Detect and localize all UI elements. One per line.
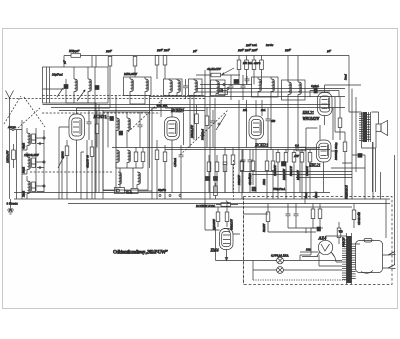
- capacitor Cright filled: [358, 154, 362, 158]
- resistor Rpow3: [318, 204, 322, 229]
- svg-text:20kΩ1W: 20kΩ1W: [238, 175, 241, 185]
- resistor R6 vertical drop: [237, 56, 241, 85]
- wire verticals midband: [190, 95, 194, 148]
- svg-text:µF: µF: [63, 60, 67, 64]
- box IF can6: [282, 80, 306, 100]
- resistor Rpow2: [311, 204, 315, 229]
- wire T4 grid top: [310, 91, 339, 98]
- coil Lbot1: [118, 172, 121, 185]
- arrow EM4 down: [225, 253, 228, 261]
- svg-text:GŁOŚNIK: GŁOŚNIK: [249, 173, 252, 185]
- wire dashed AVC upper: [5, 98, 205, 100]
- resistor Rrow1: [276, 150, 280, 200]
- rail hf c: [59, 110, 205, 112]
- wire row links: [103, 190, 152, 193]
- antenna: [6, 91, 14, 113]
- resistor Rmid vertical: [214, 183, 218, 199]
- wire speaker top: [352, 89, 379, 200]
- svg-text:30µH: 30µH: [23, 167, 26, 173]
- rail lower a: [68, 203, 390, 205]
- tube T5 EBL21: [317, 140, 332, 172]
- resistor Rrow2: [284, 150, 288, 200]
- coil Lbot2: [137, 172, 140, 188]
- rail mid y149.5: [165, 149, 330, 151]
- svg-text:Opłnd.: Opłnd.: [311, 84, 320, 88]
- wire AZ4 links: [319, 236, 347, 266]
- resistor Rsw vertical: [205, 107, 209, 148]
- resistor Rrow11: [265, 150, 269, 200]
- coil Lsw3: [27, 176, 30, 199]
- coil L1: [74, 67, 77, 103]
- box IF can2: [164, 79, 183, 96]
- rail ground upper: [14, 192, 330, 194]
- coil Losc1: [116, 112, 119, 148]
- capacitor Cosc2: [116, 150, 119, 168]
- resistor Rsw2: [32, 158, 36, 168]
- coil L9: [258, 77, 261, 97]
- mains plug body: [356, 241, 383, 273]
- svg-text:żółt. ziel.: żółt. ziel.: [156, 104, 168, 108]
- wire dashdot vertical: [233, 160, 235, 200]
- wire dashdot gang line2: [18, 108, 40, 128]
- svg-text:POTENCJOM.: POTENCJOM.: [195, 204, 216, 208]
- lamp La1: [277, 257, 284, 264]
- resistor RT1r: [95, 111, 99, 148]
- svg-text:05MΩ1W: 05MΩ1W: [231, 218, 234, 230]
- capacitor Cmid filled: [234, 80, 239, 84]
- wire can6 feeds: [288, 56, 298, 81]
- svg-text:µµF µµF µµF: µµF µµF µµF: [238, 48, 259, 52]
- svg-text:µµF: µµF: [106, 49, 113, 53]
- fuse pill: [364, 239, 372, 243]
- svg-text:45Ω2W 40: 45Ω2W 40: [86, 155, 90, 168]
- svg-text:Odbiornik radiowy „382-P-UW”: Odbiornik radiowy „382-P-UW”: [113, 250, 168, 256]
- resistor Rright2: [343, 132, 347, 199]
- svg-text:4,5ΩмA: 4,5ΩмA: [174, 158, 177, 167]
- resistor Rrow6: [207, 155, 211, 193]
- capacitor Cosc filled: [119, 131, 123, 135]
- transformer primary winding: [342, 236, 352, 283]
- svg-text:30pFmd: 30pFmd: [52, 73, 63, 77]
- capacitor Cel4 filled: [282, 162, 286, 167]
- svg-text:3md: 3md: [344, 74, 348, 80]
- antenna switch contact: [10, 129, 23, 131]
- wire vertical x59: [58, 139, 60, 199]
- resistor R9 vertical drop: [260, 56, 264, 85]
- tube T2 ECH21: [165, 117, 180, 148]
- resistor R5 vertical drop: [163, 56, 167, 80]
- svg-text:żółt. ziel. czerw.: żółt. ziel. czerw.: [242, 62, 261, 65]
- capacitor Cpow1: [286, 204, 291, 229]
- coil Lsw1: [27, 128, 30, 150]
- left ladder vertical B: [35, 128, 37, 192]
- svg-text:NNµµF: NNµµF: [68, 49, 80, 53]
- resistor Rrow5: [308, 150, 312, 200]
- wire can1 drop: [130, 96, 145, 105]
- resistor R2 vertical drop: [108, 57, 112, 78]
- coil L2: [88, 67, 91, 103]
- resistor Rsw1: [32, 134, 36, 144]
- svg-text:300.: 300.: [306, 248, 312, 252]
- box IF can1: [124, 77, 152, 96]
- resistor Rem2: [225, 204, 229, 228]
- svg-text:Ant.uz.: Ant.uz.: [7, 125, 17, 129]
- wire dotted heater return: [253, 279, 346, 281]
- resistor Rrow7: [215, 155, 219, 193]
- wire top supply rail: [81, 55, 350, 57]
- wire vertical x161: [160, 100, 162, 117]
- resistor Rgrid leak: [12, 144, 16, 168]
- node sw1: [43, 137, 45, 139]
- resistor Rosc3: [141, 148, 145, 169]
- svg-text:ODGŁOŚN: ODGŁOŚN: [358, 212, 361, 225]
- resistor Rrow3: [292, 150, 296, 200]
- wire gangline long: [180, 110, 228, 155]
- output transformer primary: [359, 112, 371, 142]
- resistor R7 vertical drop: [245, 56, 249, 85]
- trimmer arrow: [57, 88, 85, 101]
- wire T5 connections: [306, 108, 338, 199]
- resistor Rrow12: [271, 150, 275, 200]
- svg-text:EBL21: EBL21: [308, 163, 321, 168]
- wire dashed AVC upper2: [43, 95, 206, 97]
- svg-text:40µH: 40µH: [23, 143, 26, 149]
- wire ladder extra links: [31, 140, 44, 192]
- svg-text:750µFmA: 750µFmA: [273, 187, 285, 191]
- capacitor C100 filled: [110, 117, 114, 121]
- svg-text:ECH21: ECH21: [93, 114, 107, 119]
- box IF can4: [211, 80, 226, 96]
- wire lamp links: [216, 227, 343, 280]
- capacitor C5: [183, 79, 188, 99]
- svg-text:V.B: V.B: [339, 230, 343, 234]
- svg-text:25kΩ: 25kΩ: [263, 179, 266, 185]
- wire power top links: [244, 214, 317, 232]
- wire dashed antenna coupling: [4, 96, 45, 127]
- wire dashed AVC lower: [30, 171, 112, 173]
- wire osc bottom: [116, 168, 143, 188]
- svg-text:WNGŁ62W: WNGŁ62W: [303, 117, 321, 121]
- rail screen d: [150, 96, 345, 98]
- node contacts2: [227, 88, 229, 90]
- coil L7: [194, 79, 197, 96]
- wire antenna lead down: [9, 112, 11, 199]
- wire right rail drop: [348, 56, 350, 113]
- wire vertical x183.5: [183, 113, 185, 145]
- capacitor Cpow2: [294, 204, 299, 229]
- capacitor CoscT: [106, 112, 111, 148]
- capacitor Cel3 filled: [252, 187, 256, 191]
- rail ground main: [14, 198, 390, 200]
- left ladder vertical C: [43, 130, 45, 192]
- wire T1 grid left: [59, 127, 69, 139]
- resistor R3 vertical drop: [133, 57, 137, 78]
- wire boxA inner verticals: [43, 67, 65, 103]
- resistor Rrow9: [240, 150, 244, 200]
- node ladder b: [39, 167, 41, 169]
- transformer secondary winding: [352, 244, 356, 279]
- tube T4 EBL21: [318, 93, 333, 126]
- wire T3 cathode: [255, 148, 257, 193]
- wire lamp to transformer: [311, 227, 323, 229]
- svg-text:25µH: 25µH: [23, 191, 26, 197]
- svg-text:0 Ziemia: 0 Ziemia: [7, 202, 19, 206]
- wire dashed mid: [42, 112, 160, 114]
- wire boxA feeds: [92, 56, 96, 68]
- resistor Rrow4: [300, 150, 304, 200]
- left ladder vertical A: [21, 120, 23, 199]
- capacitor CboxA2 filled: [95, 86, 99, 90]
- box oscillator section: [103, 112, 148, 190]
- coil L11: [288, 80, 291, 100]
- switch contact T3: [216, 114, 226, 130]
- box power dashed: [244, 197, 393, 285]
- resistor Rpow1: [266, 204, 270, 233]
- svg-text:/2W: /2W: [293, 154, 299, 158]
- svg-text:5kΩ2W: 5kΩ2W: [263, 223, 266, 232]
- wire vertical x152: [150, 95, 158, 199]
- wire dashdot gang line: [128, 100, 162, 132]
- resistor Rosc1: [127, 150, 130, 168]
- svg-text:450: 450: [271, 120, 276, 123]
- coil Lsw2: [27, 152, 30, 174]
- wire T4 top: [325, 85, 362, 93]
- ground symbol: [7, 199, 14, 214]
- rail screen b: [196, 88, 345, 90]
- wire pow mid: [288, 228, 320, 233]
- svg-text:EM4: EM4: [210, 248, 219, 253]
- trimmer arrow2: [58, 156, 64, 168]
- wire vertical x99: [98, 104, 100, 193]
- wire T2 anode: [165, 108, 185, 117]
- rail mid y147.5: [112, 147, 320, 149]
- node sw3: [43, 185, 45, 187]
- resistor Rs1: [90, 140, 94, 199]
- capacitor Cpow filled: [317, 227, 321, 231]
- mains plug prongs: [383, 252, 396, 269]
- capacitor CT4 filled: [314, 88, 317, 93]
- wire speaker leads: [349, 112, 376, 148]
- resistor Rsc vertical: [195, 105, 199, 140]
- row small boxes above rail: [115, 188, 125, 194]
- capacitor C9: [241, 150, 246, 193]
- resistor R10 horizontal mid top: [196, 73, 240, 77]
- capacitor Cosc1: [138, 112, 143, 148]
- transformer core: [347, 233, 352, 284]
- rail screen c: [196, 91, 330, 93]
- svg-text:µµF nad.: µµF nad.: [246, 43, 258, 47]
- svg-text:62µFм: 62µFм: [158, 189, 166, 192]
- wire T3 anode: [255, 100, 257, 116]
- output transformer core: [369, 112, 371, 142]
- capacitor C6: [179, 145, 184, 199]
- tube T3 ECH21: [249, 116, 264, 148]
- speaker: [376, 121, 388, 136]
- wire EM4 links: [205, 230, 240, 234]
- wire T1 anode up: [77, 77, 111, 114]
- rail hf a: [43, 104, 331, 106]
- wire misc verticals right: [300, 151, 305, 204]
- svg-text:30000M 40Ωµ: 30000M 40Ωµ: [334, 142, 338, 160]
- capacitor C7: [229, 75, 234, 100]
- wire vertical x103: [102, 110, 104, 199]
- wire T2 cathode down: [171, 148, 173, 193]
- resistor Rdrop2: [337, 222, 341, 244]
- resistor R4 vertical drop: [155, 56, 159, 80]
- capacitor C10: [248, 150, 253, 193]
- rail hf b: [51, 107, 345, 109]
- box input bandfilter: [43, 67, 109, 103]
- coil L4: [145, 77, 148, 96]
- svg-text:µµF µµF: µµF µµF: [157, 48, 171, 52]
- tube EM4 magic eye: [220, 228, 234, 253]
- wire verticals T3 area: [239, 97, 298, 193]
- box IF can5: [252, 77, 279, 97]
- rail lower b: [196, 206, 352, 208]
- wire right verticals lower: [365, 142, 395, 265]
- svg-text:µµF: µµF: [285, 48, 292, 52]
- svg-text:PRZEGŁOŚ: PRZEGŁOŚ: [346, 185, 349, 200]
- lamp La2: [277, 267, 284, 274]
- node pins row: [159, 195, 181, 197]
- node sw2: [43, 161, 45, 163]
- capacitor C8: [241, 75, 246, 100]
- potentiometer: [216, 201, 238, 207]
- svg-text:EBL21: EBL21: [302, 110, 315, 115]
- resistor Rrow8: [223, 162, 227, 193]
- resistor Rright1: [338, 97, 342, 140]
- coil L5: [169, 79, 172, 96]
- wire box internals: [66, 103, 96, 111]
- coil Losc2: [127, 112, 130, 148]
- tube T1 ECH21: [69, 114, 85, 148]
- capacitor Cmid2: [245, 76, 250, 84]
- resistor Rtop1 horizontal: [64, 54, 81, 67]
- resistor Rsw3: [32, 182, 36, 192]
- wire right horizontals: [331, 155, 365, 168]
- resistor R8 vertical drop: [252, 56, 256, 85]
- svg-text:6.0: 6.0: [295, 144, 299, 148]
- wire mains leads: [300, 244, 360, 257]
- node ladder a: [39, 143, 41, 145]
- resistor Rdrop1: [352, 204, 356, 229]
- svg-text:Głośn: Głośn: [126, 192, 133, 195]
- capacitor CT1r: [87, 111, 92, 141]
- node contacts: [223, 84, 225, 86]
- svg-text:ziel.: ziel.: [260, 108, 266, 112]
- capacitor Cel1 filled: [206, 177, 210, 181]
- wire vertical x62: [61, 152, 63, 199]
- coil L10: [271, 77, 274, 97]
- resistor Rk1: [65, 140, 69, 199]
- resistor Rc2b: [163, 145, 167, 199]
- wire vertical x116: [115, 95, 117, 193]
- coil L6: [177, 79, 180, 96]
- wire right verticals: [335, 97, 345, 132]
- capacitor C1: [64, 79, 68, 103]
- switch arc: [361, 271, 373, 274]
- svg-text:300µFmd: 300µFmd: [202, 128, 205, 140]
- box IF can3: [189, 79, 203, 96]
- capacitor Cel2 filled: [214, 177, 218, 181]
- resistor Rosc2: [134, 148, 138, 169]
- resistor Rem1: [216, 207, 220, 227]
- tube AZ4: [317, 236, 334, 256]
- wire mid long verticals: [205, 70, 215, 230]
- resistor Rfb horizontal: [296, 147, 317, 151]
- coil L12: [298, 80, 301, 100]
- resistor Rrow10: [251, 150, 255, 186]
- trimmer arrow3: [222, 68, 234, 75]
- left ladder vertical A2: [16, 130, 18, 199]
- rail screen a: [200, 84, 252, 86]
- coil L8: [216, 80, 219, 96]
- resistor Rmid2 horizontal: [218, 91, 228, 95]
- wire vertical x95: [94, 67, 96, 199]
- coil L3: [130, 77, 133, 96]
- resistor RT3b: [231, 148, 235, 193]
- capacitor CT3r: [266, 108, 271, 148]
- resistor Rc2a: [155, 140, 159, 199]
- svg-text:ECH21: ECH21: [254, 143, 268, 148]
- capacitor Csw: [211, 110, 216, 148]
- wire ladder links: [22, 138, 44, 186]
- wire dashed vert mid power: [243, 197, 245, 285]
- resistor RT3a: [223, 148, 227, 193]
- wire T1 cathode down: [76, 148, 78, 193]
- rail row mid: [240, 172, 352, 178]
- wire vertical x81: [81, 110, 96, 199]
- svg-text:żarów: żarów: [265, 43, 273, 47]
